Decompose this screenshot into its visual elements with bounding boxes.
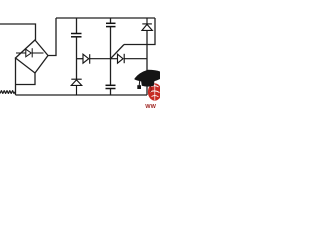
diagonal wire to node: [111, 45, 125, 59]
bridge rectifier diamond: [16, 40, 49, 73]
wire top-left AC input: [0, 24, 36, 40]
logo graduation cap: [135, 70, 161, 89]
capacitor C2 column x=110.5 top lead: [110, 18, 112, 23]
diode D2 horizontal: [111, 54, 148, 63]
wire bridge left vertex down: [15, 58, 17, 95]
wire bridge bottom vertex: [16, 73, 36, 85]
svg-text:WW: WW: [145, 104, 156, 110]
diode D4 vertical at x=147: [142, 18, 152, 30]
wire C3 to bottom rail: [110, 89, 112, 96]
diode D5 inside bridge: [16, 48, 44, 57]
horizontal wire node row: [77, 58, 84, 60]
logo red emblem: [148, 83, 162, 100]
top rail: [56, 17, 155, 19]
capacitor C2 plates: [106, 23, 116, 26]
capacitor C1 column x=76.5 top lead: [76, 18, 78, 34]
wire D4 down through junction to bottom rail: [146, 31, 148, 96]
wire C2 to node N2: [110, 27, 112, 59]
resistor R1 squiggle bottom-left: [0, 91, 15, 94]
wire bridge + output to top rail: [48, 18, 56, 56]
diode D3 vertical at x=76.5: [71, 79, 81, 95]
capacitor C3 plates: [106, 85, 116, 88]
right edge wire: [124, 18, 155, 45]
bottom rail right network: [16, 94, 148, 96]
diode D1 horizontal: [83, 54, 111, 64]
capacitor C1 plates: [71, 34, 82, 37]
wire C1 to node: [76, 37, 78, 79]
logo tassel: [138, 80, 141, 86]
wire node N2 down to C3: [110, 59, 112, 86]
